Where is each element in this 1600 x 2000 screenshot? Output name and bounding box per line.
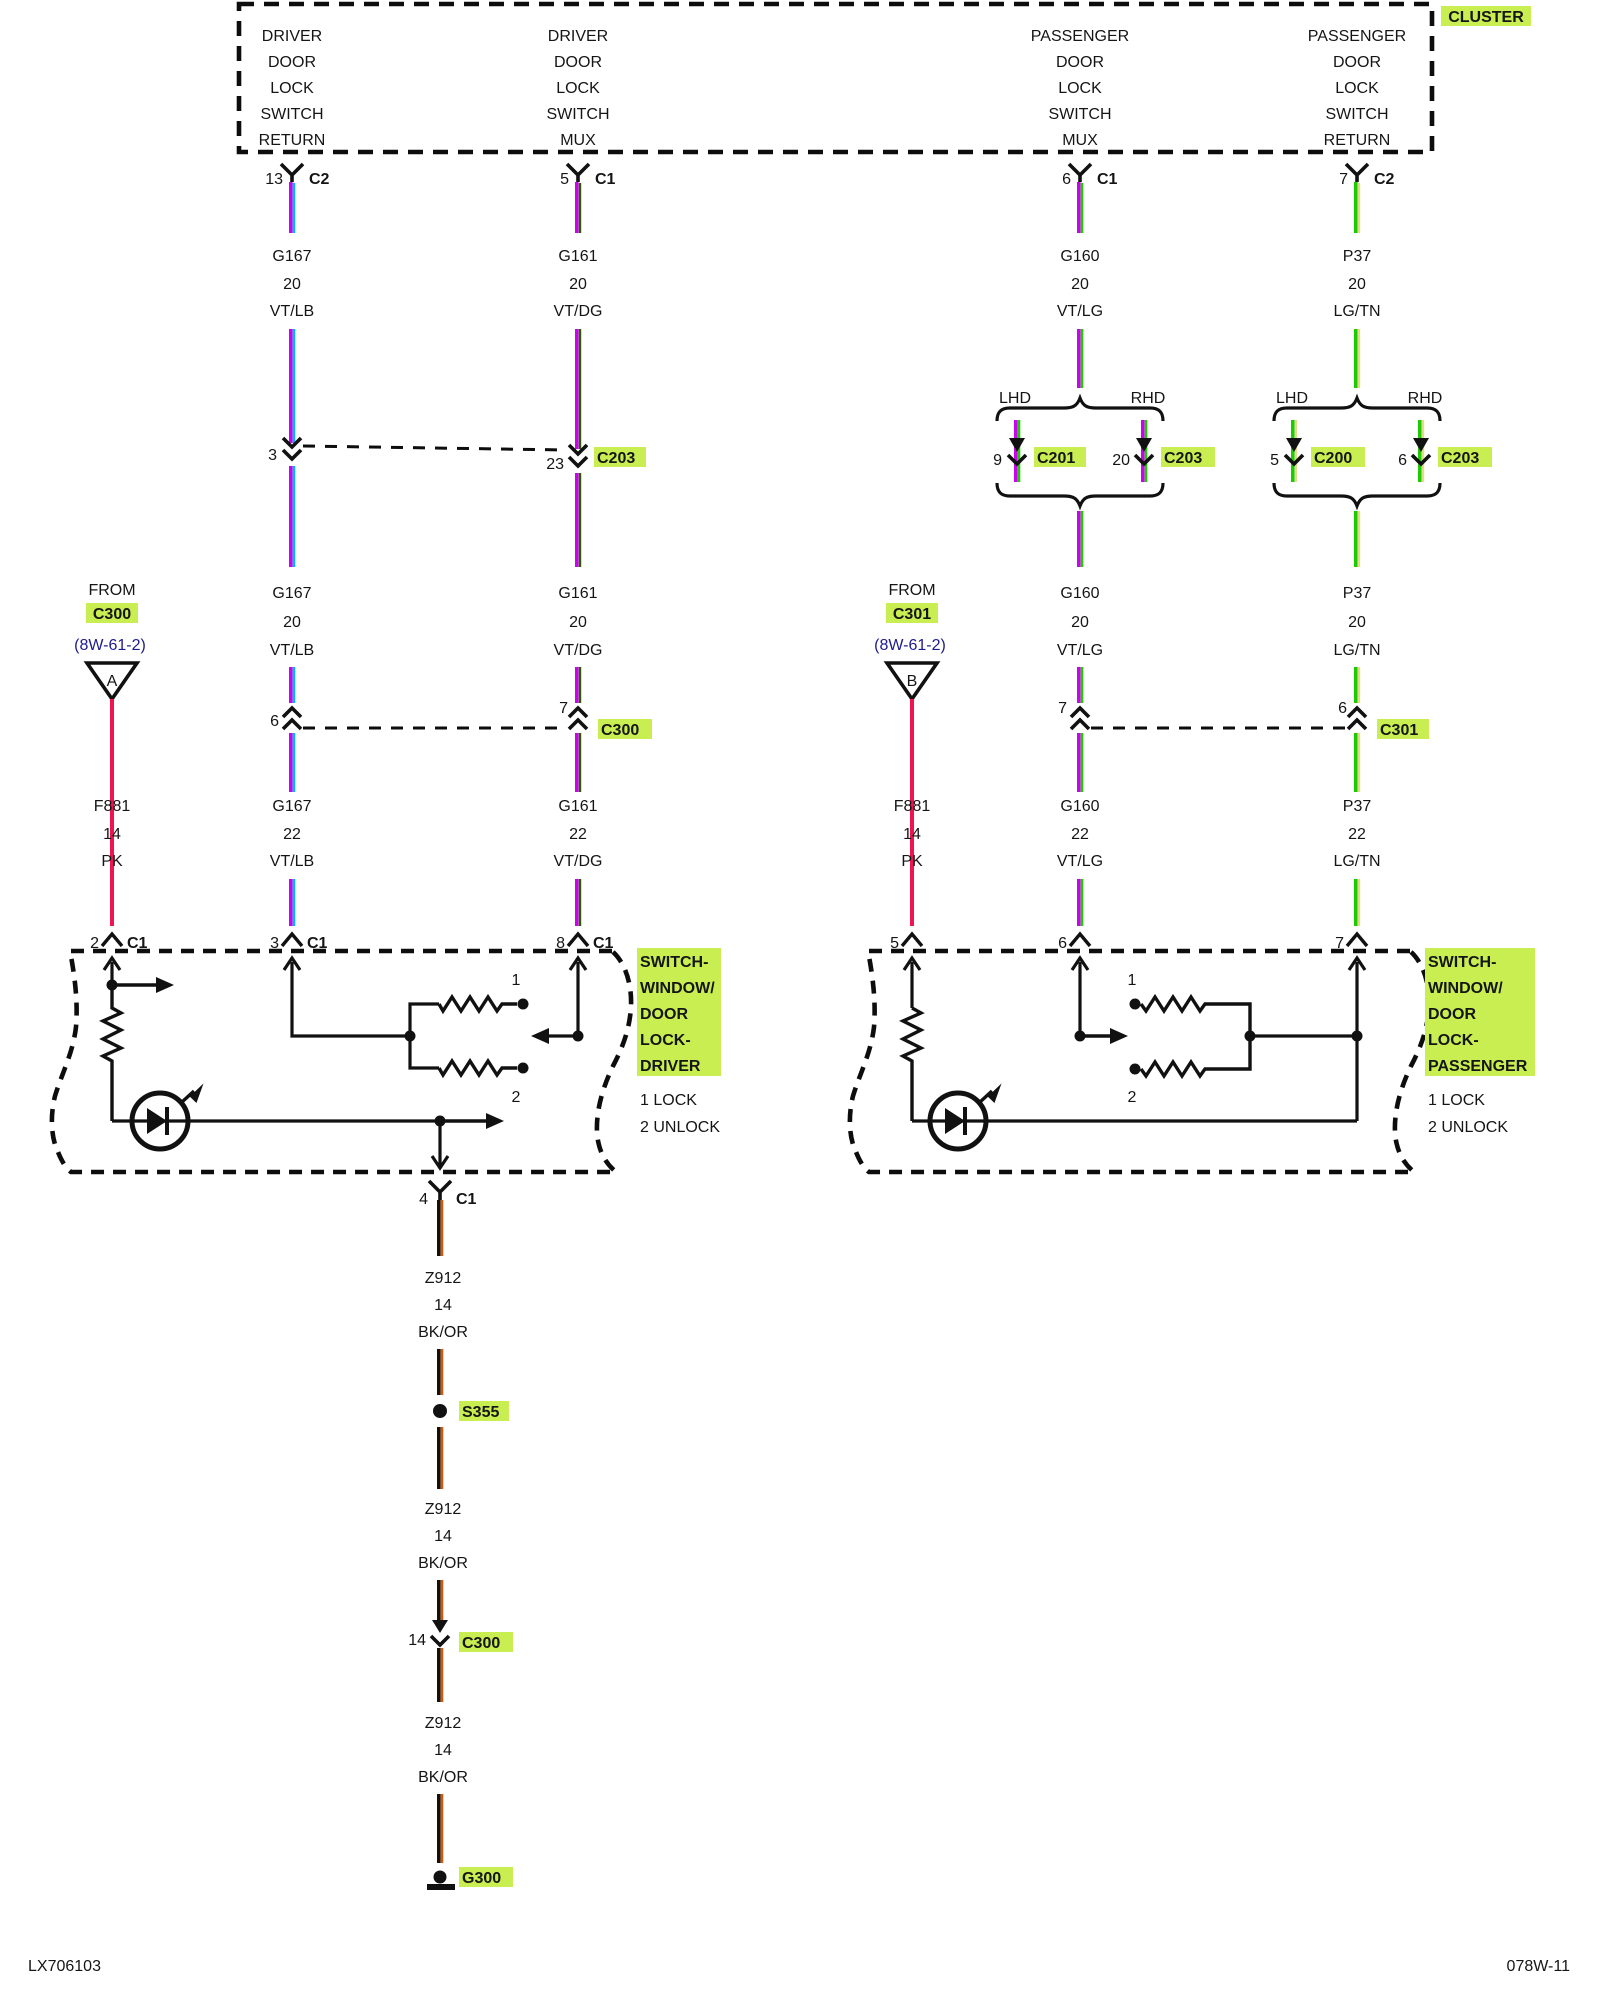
svg-text:20: 20 [283,614,301,631]
wire Z912 BK/OR segment 6 [439,1794,442,1863]
svg-text:20: 20 [1348,276,1366,293]
svg-text:20: 20 [569,276,587,293]
label G160 20 VT/LG [1057,248,1103,320]
svg-text:LHD: LHD [999,390,1031,407]
svg-text:G167: G167 [272,798,311,815]
svg-text:RHD: RHD [1408,390,1443,407]
svg-text:LG/TN: LG/TN [1333,303,1380,320]
svg-text:20: 20 [1071,276,1089,293]
svg-text:LOCK: LOCK [1058,80,1102,97]
wire top brace G160 split [997,398,1163,421]
wire Z912 BK/OR segment 4 [439,1580,442,1620]
svg-text:7: 7 [559,700,568,717]
label Z912 14 BK/OR (3) [418,1715,468,1786]
wire G167 20 VT/LB segment 2 [291,329,294,443]
svg-text:22: 22 [1071,826,1089,843]
node CLUSTER label [1441,6,1531,26]
wire pin3 internal arrow [284,958,410,1036]
label Z912 14 BK/OR (1) [418,1270,468,1341]
svg-text:1 LOCK: 1 LOCK [1428,1092,1485,1109]
wire LED row horizontal [112,1119,440,1122]
connector 20 C203 (RHD) [1112,438,1215,469]
svg-text:6: 6 [1058,935,1067,952]
label Z912 14 BK/OR (2) [418,1501,468,1572]
connector 5 C200 [1270,438,1365,469]
svg-text:22: 22 [1348,826,1366,843]
wire LED row horizontal (passenger) [912,1119,1357,1122]
connector pin 4 C1 (driver switch bottom) [419,1181,476,1208]
svg-text:G160: G160 [1060,585,1099,602]
label G167 20 VT/LB [270,248,314,320]
connector pin 6 C1 [1062,164,1117,188]
node FROM C301 reference [874,582,946,654]
label G161 22 VT/DG [554,798,603,870]
label G161 20 VT/DG [554,248,603,320]
svg-text:SWITCH-: SWITCH- [640,954,708,971]
svg-text:PASSENGER: PASSENGER [1031,28,1129,45]
wire G167 VT/LB segment 5 [291,733,294,792]
svg-text:LOCK-: LOCK- [1428,1032,1479,1049]
svg-text:PASSENGER: PASSENGER [1308,28,1406,45]
wire G161 20 VT/DG segment 2 [577,329,580,449]
LED lamp (passenger switch) [930,1083,1002,1149]
wire G167 VT/LB segment 6 [291,879,294,926]
wire switch pole to contacts (driver) [410,1004,439,1068]
wire RHD branch LG/TN [1420,420,1423,482]
svg-text:DRIVER: DRIVER [548,28,608,45]
svg-text:VT/LG: VT/LG [1057,642,1103,659]
wire G160 20 VT/LG segment 1 [1079,182,1082,233]
wire dashed link C301 row [1091,727,1345,730]
svg-text:VT/LB: VT/LB [270,853,314,870]
wire pin7 vertical with arrow (passenger) [1349,958,1365,1121]
svg-text:2 UNLOCK: 2 UNLOCK [640,1119,720,1136]
svg-text:20: 20 [569,614,587,631]
svg-text:6: 6 [270,713,279,730]
svg-text:078W-11: 078W-11 [1507,1958,1571,1975]
svg-text:C203: C203 [597,450,635,467]
svg-text:LOCK: LOCK [556,80,600,97]
resistor (driver switch) [103,985,121,1121]
off-page connector A [87,663,137,699]
wire internal arrow down to pin 4 [432,1121,448,1168]
svg-text:G167: G167 [272,585,311,602]
connector 7 (inline C301 row) [1058,700,1089,729]
switch-window/door lock-driver dashed outline [52,951,631,1172]
off-page connector B [887,663,937,699]
connector 9 C201 [993,438,1086,469]
resistor unlock contact 2 (driver) [439,1061,529,1075]
svg-text:F881: F881 [94,798,131,815]
svg-text:C201: C201 [1037,450,1075,467]
svg-text:RETURN: RETURN [1324,132,1391,149]
svg-text:C2: C2 [1374,171,1395,188]
svg-text:13: 13 [265,171,283,188]
resistor lock contact 1 (driver) [439,997,529,1011]
wire pin8 internal arrow with wiper [531,958,586,1044]
svg-text:DRIVER: DRIVER [640,1058,701,1075]
svg-text:G167: G167 [272,248,311,265]
svg-text:20: 20 [1071,614,1089,631]
label G167 20 VT/LB (second) [270,585,314,659]
label G160 20 VT/LG (second) [1057,585,1103,659]
wire G161 20 VT/DG segment 1 [577,182,580,233]
node junction dot pin7 column [1352,1031,1363,1042]
label P37 20 LG/TN (second) [1333,585,1380,659]
wire dashed link C203 row [303,446,566,450]
svg-text:PK: PK [901,853,923,870]
svg-text:SWITCH: SWITCH [260,106,323,123]
svg-text:SWITCH-: SWITCH- [1428,954,1496,971]
wire internal arrow right LED output [440,1113,504,1129]
svg-text:DOOR: DOOR [1056,54,1104,71]
svg-text:G161: G161 [558,585,597,602]
node junction dot pin2 [107,980,118,991]
label P37 20 LG/TN [1333,248,1380,320]
svg-text:VT/DG: VT/DG [554,853,603,870]
node junction dot LED output [435,1116,446,1127]
svg-text:PK: PK [101,853,123,870]
connector pin 3 C1 (driver switch) [270,934,327,952]
node DRIVER DOOR LOCK SWITCH MUX header [546,28,609,149]
svg-text:LHD: LHD [1276,390,1308,407]
wire dashed link C300 row [303,727,566,730]
svg-text:(8W-61-2): (8W-61-2) [874,637,946,654]
svg-text:C203: C203 [1164,450,1202,467]
switch-window/door lock-passenger dashed outline [850,951,1429,1172]
connector pin 7 C2 [1339,164,1394,188]
connector 6 C203 (RHD) [1398,438,1492,469]
svg-text:1 LOCK: 1 LOCK [640,1092,697,1109]
svg-text:5: 5 [1270,452,1279,469]
svg-text:3: 3 [268,447,277,464]
connector 3 (inline, driver return) [268,438,301,464]
svg-text:WINDOW/: WINDOW/ [1428,980,1503,997]
splice S355 [433,1401,509,1421]
svg-text:BK/OR: BK/OR [418,1769,468,1786]
svg-text:7: 7 [1339,171,1348,188]
svg-text:DOOR: DOOR [554,54,602,71]
node DRIVER DOOR LOCK SWITCH RETURN header [259,28,326,149]
svg-text:FROM: FROM [888,582,935,599]
svg-text:G160: G160 [1060,798,1099,815]
svg-text:23: 23 [546,456,564,473]
wire G161 VT/DG segment 5 [577,733,580,792]
svg-text:1: 1 [1128,972,1137,989]
wire G160 VT/LG segment 6 [1079,879,1082,926]
svg-text:S355: S355 [462,1404,499,1421]
wire G161 VT/DG segment 3 [577,473,580,567]
svg-text:SWITCH: SWITCH [546,106,609,123]
wire P37 20 LG/TN segment 1 [1356,182,1359,233]
svg-text:14: 14 [408,1632,426,1649]
wire G160 VT/LG segment 2 [1079,329,1082,388]
wire F881 14 PK (passenger) [910,699,914,926]
svg-text:DOOR: DOOR [1333,54,1381,71]
connector pin 13 C2 [265,164,329,188]
label G161 20 VT/DG (second) [554,585,603,659]
svg-text:MUX: MUX [560,132,596,149]
svg-text:2 UNLOCK: 2 UNLOCK [1428,1119,1508,1136]
svg-text:MUX: MUX [1062,132,1098,149]
label G167 22 VT/LB [270,798,314,870]
svg-text:BK/OR: BK/OR [418,1555,468,1572]
wire pin5 internal arrow [904,958,920,1008]
svg-text:DRIVER: DRIVER [262,28,322,45]
svg-text:20: 20 [1348,614,1366,631]
node legend 1 LOCK 2 UNLOCK (driver) [640,1092,720,1136]
wire G160 VT/LG segment 4 [1079,667,1082,703]
svg-text:CLUSTER: CLUSTER [1448,9,1524,26]
wire pin2 internal arrow [104,958,120,985]
node junction dot common pole (passenger) [1245,1031,1256,1042]
svg-text:14: 14 [903,826,921,843]
connector 6 C301 [1338,700,1429,739]
wire LHD branch VT/LG [1016,420,1019,482]
svg-text:C1: C1 [456,1191,477,1208]
svg-text:22: 22 [283,826,301,843]
svg-text:14: 14 [434,1297,452,1314]
svg-text:6: 6 [1062,171,1071,188]
svg-text:DOOR: DOOR [1428,1006,1476,1023]
svg-text:DOOR: DOOR [268,54,316,71]
svg-text:LG/TN: LG/TN [1333,853,1380,870]
wire P37 LG/TN segment 6 [1356,879,1359,926]
svg-text:VT/LB: VT/LB [270,642,314,659]
node legend 1 LOCK 2 UNLOCK (passenger) [1428,1092,1508,1136]
svg-text:20: 20 [283,276,301,293]
svg-text:RHD: RHD [1131,390,1166,407]
svg-text:P37: P37 [1343,585,1372,602]
svg-text:9: 9 [993,452,1002,469]
svg-text:2: 2 [512,1089,521,1106]
svg-text:C1: C1 [595,171,616,188]
connector pin 8 C1 (driver switch) [556,934,613,952]
wire P37 LG/TN segment 5 [1356,733,1359,792]
ground G300 [427,1867,513,1887]
svg-text:C200: C200 [1314,450,1352,467]
wire top brace P37 split [1274,398,1440,421]
svg-text:C300: C300 [601,722,639,739]
svg-text:6: 6 [1338,700,1347,717]
svg-text:SWITCH: SWITCH [1048,106,1111,123]
svg-text:RETURN: RETURN [259,132,326,149]
svg-text:C1: C1 [1097,171,1118,188]
svg-text:14: 14 [103,826,121,843]
svg-text:C300: C300 [93,606,131,623]
node PASSENGER DOOR LOCK SWITCH MUX header [1031,28,1129,149]
svg-text:C203: C203 [1441,450,1479,467]
wire P37 LG/TN segment 3 [1356,511,1359,567]
svg-text:VT/LB: VT/LB [270,303,314,320]
label G160 22 VT/LG [1057,798,1103,870]
wire Z912 BK/OR segment 2 [439,1349,442,1395]
node PASSENGER DOOR LOCK SWITCH RETURN header [1308,28,1406,149]
connector pin 6 (passenger switch) [1058,934,1090,952]
svg-text:G300: G300 [462,1870,501,1887]
wire bottom brace G160 merge [997,483,1163,506]
LED lamp (driver switch) [132,1083,204,1149]
svg-text:LOCK: LOCK [270,80,314,97]
wire G161 VT/DG segment 4 [577,667,580,703]
svg-text:C301: C301 [1380,722,1418,739]
connector 7 C300 [559,700,652,739]
connector 23 C203 [546,445,646,473]
svg-text:2: 2 [1128,1089,1137,1106]
cluster module dashed box [239,4,1432,152]
node SWITCH-WINDOW/DOOR LOCK-DRIVER label [637,948,721,1076]
svg-text:14: 14 [434,1528,452,1545]
svg-text:A: A [107,673,118,690]
svg-text:P37: P37 [1343,798,1372,815]
svg-text:Z912: Z912 [425,1715,462,1732]
resistor (passenger switch) [903,1008,921,1121]
svg-text:B: B [907,673,918,690]
node FROM C300 reference [74,582,146,654]
wire Z912 BK/OR segment 3 [439,1427,442,1489]
wire G161 VT/DG segment 6 [577,879,580,926]
svg-text:VT/DG: VT/DG [554,642,603,659]
svg-text:SWITCH: SWITCH [1325,106,1388,123]
svg-text:F881: F881 [894,798,931,815]
svg-text:6: 6 [1398,452,1407,469]
svg-text:LX706103: LX706103 [28,1958,101,1975]
wire Z912 14 BK/OR segment 1 [439,1200,442,1256]
svg-text:Z912: Z912 [425,1270,462,1287]
svg-text:LOCK-: LOCK- [640,1032,691,1049]
node junction dot switch pole (driver) [405,1031,416,1042]
svg-text:BK/OR: BK/OR [418,1324,468,1341]
svg-text:PASSENGER: PASSENGER [1428,1058,1528,1075]
wire pin6 internal arrow with wiper (passenger) [1072,958,1128,1044]
connector 6 (inline C300 row) [270,708,301,730]
wire G167 VT/LB segment 4 [291,667,294,703]
wire G167 20 VT/LB segment 1 [291,182,294,233]
label P37 22 LG/TN [1333,798,1380,870]
svg-text:VT/LG: VT/LG [1057,853,1103,870]
resistor unlock contact 2 (passenger) [1130,1036,1251,1076]
svg-text:LG/TN: LG/TN [1333,642,1380,659]
resistor lock contact 1 (passenger) [1130,997,1251,1036]
connector pin 2 C1 (driver switch) [90,934,147,952]
wire F881 14 PK (driver) [110,699,114,926]
label F881 14 PK (driver) [94,798,131,870]
wire LHD branch LG/TN [1293,420,1296,482]
svg-text:VT/LG: VT/LG [1057,303,1103,320]
svg-text:LOCK: LOCK [1335,80,1379,97]
label F881 14 PK (passenger) [894,798,931,870]
svg-text:G161: G161 [558,248,597,265]
svg-text:FROM: FROM [88,582,135,599]
svg-text:DOOR: DOOR [640,1006,688,1023]
wire P37 LG/TN segment 4 [1356,667,1359,703]
svg-text:Z912: Z912 [425,1501,462,1518]
wire bottom brace P37 merge [1274,483,1440,506]
connector pin 7 (passenger switch) [1335,934,1367,952]
svg-text:G161: G161 [558,798,597,815]
svg-text:C301: C301 [893,606,931,623]
wire G167 VT/LB segment 3 [291,466,294,567]
wire G160 VT/LG segment 3 [1079,511,1082,567]
svg-text:C2: C2 [309,171,330,188]
wire Z912 BK/OR segment 5 [439,1648,442,1702]
wire pole to pin7 column (passenger) [1250,1034,1357,1037]
svg-text:14: 14 [434,1742,452,1759]
wire G160 VT/LG segment 5 [1079,733,1082,792]
node SWITCH-WINDOW/DOOR LOCK-PASSENGER label [1425,948,1535,1076]
svg-text:7: 7 [1058,700,1067,717]
svg-text:WINDOW/: WINDOW/ [640,980,715,997]
svg-text:C300: C300 [462,1635,500,1652]
wire P37 LG/TN segment 2 [1356,329,1359,388]
svg-text:4: 4 [419,1191,428,1208]
svg-text:5: 5 [560,171,569,188]
svg-text:20: 20 [1112,452,1130,469]
svg-text:(8W-61-2): (8W-61-2) [74,637,146,654]
svg-text:G160: G160 [1060,248,1099,265]
connector 14 C300 (inline) [408,1620,513,1652]
wire RHD branch VT/LG [1143,420,1146,482]
svg-text:P37: P37 [1343,248,1372,265]
svg-text:22: 22 [569,826,587,843]
svg-text:1: 1 [512,972,521,989]
svg-text:VT/DG: VT/DG [554,303,603,320]
connector pin 5 C1 [560,164,615,188]
connector pin 5 (passenger switch) [890,934,922,952]
wire internal arrow right from pin2 [112,977,174,993]
